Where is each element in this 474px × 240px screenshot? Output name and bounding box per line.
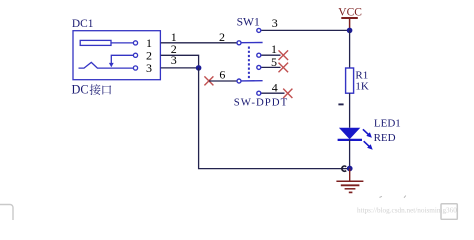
DC1 comment label DC接口: [72, 83, 112, 97]
wire net1 DC1 pin1 to SW1 common: [161, 42, 237, 44]
wire R1 to LED1: [349, 93, 351, 128]
wire stub net6: [209, 80, 237, 82]
wire to LED cathode rail: [199, 68, 350, 169]
connector DC1 body: [73, 31, 160, 80]
SW1 pin 3: [257, 28, 350, 32]
hook mark on wire: [342, 166, 346, 171]
watermark box bottom-right: [441, 204, 457, 220]
DC1 pin 1: [111, 41, 138, 45]
SW1 pin 1: [257, 53, 281, 57]
svg-text:3: 3: [146, 61, 152, 75]
junction DC1 pin2/pin3: [196, 65, 202, 71]
SW1 mechanical link dotted line: [248, 47, 250, 79]
DC1 pin 2 with tip arrow: [109, 53, 138, 67]
SW1 pin 4: [257, 91, 285, 95]
svg-text:SW-DPDT: SW-DPDT: [234, 96, 288, 108]
svg-text:6: 6: [219, 67, 225, 81]
SW1 common A pin and lever: [237, 41, 263, 45]
svg-text:DC: DC: [72, 83, 89, 97]
LED1 cathode bar: [338, 139, 362, 141]
svg-text:3: 3: [272, 16, 278, 30]
svg-text:5: 5: [271, 55, 277, 69]
svg-text:DC1: DC1: [72, 18, 94, 30]
watermark box bottom-left: [0, 205, 13, 229]
SW1 common B pin and lever: [237, 79, 263, 83]
no-connect X on pin 4: [283, 89, 292, 98]
LED1 diode triangle: [339, 128, 360, 140]
no-connect X on wire 6: [204, 76, 213, 85]
svg-text:RED: RED: [374, 132, 396, 144]
wire net2 DC1 pin2 down: [161, 55, 199, 68]
svg-text:1K: 1K: [355, 80, 369, 92]
wire net3 DC1 pin3: [161, 67, 199, 69]
wire VCC to R1: [349, 30, 351, 68]
watermark speck: [380, 196, 406, 198]
svg-text:1: 1: [271, 42, 277, 56]
svg-text:VCC: VCC: [338, 6, 362, 18]
svg-text:4: 4: [272, 81, 278, 95]
svg-text:2: 2: [219, 30, 225, 44]
junction ground node: [347, 166, 353, 172]
minus polarity mark: [338, 103, 343, 105]
junction VCC node: [347, 28, 353, 34]
DC1 barrel contact: [80, 40, 111, 45]
LED1 emission arrows: [363, 129, 373, 149]
power port VCC: [338, 6, 362, 30]
svg-text:SW1: SW1: [237, 15, 260, 28]
svg-text:LED1: LED1: [374, 117, 401, 129]
DC1 pin 3 sleeve zigzag: [79, 62, 138, 70]
SW1 pin 5: [257, 65, 281, 69]
ground symbol GND: [336, 169, 363, 193]
no-connect X on pin 5: [279, 63, 289, 73]
resistor R1: [346, 68, 354, 93]
svg-text:3: 3: [171, 53, 177, 67]
wire LED1 to ground node: [349, 140, 351, 169]
no-connect X on pin 1: [279, 50, 289, 60]
svg-text:https://blog.csdn.net/noismimg: https://blog.csdn.net/noismimg360: [357, 206, 457, 214]
